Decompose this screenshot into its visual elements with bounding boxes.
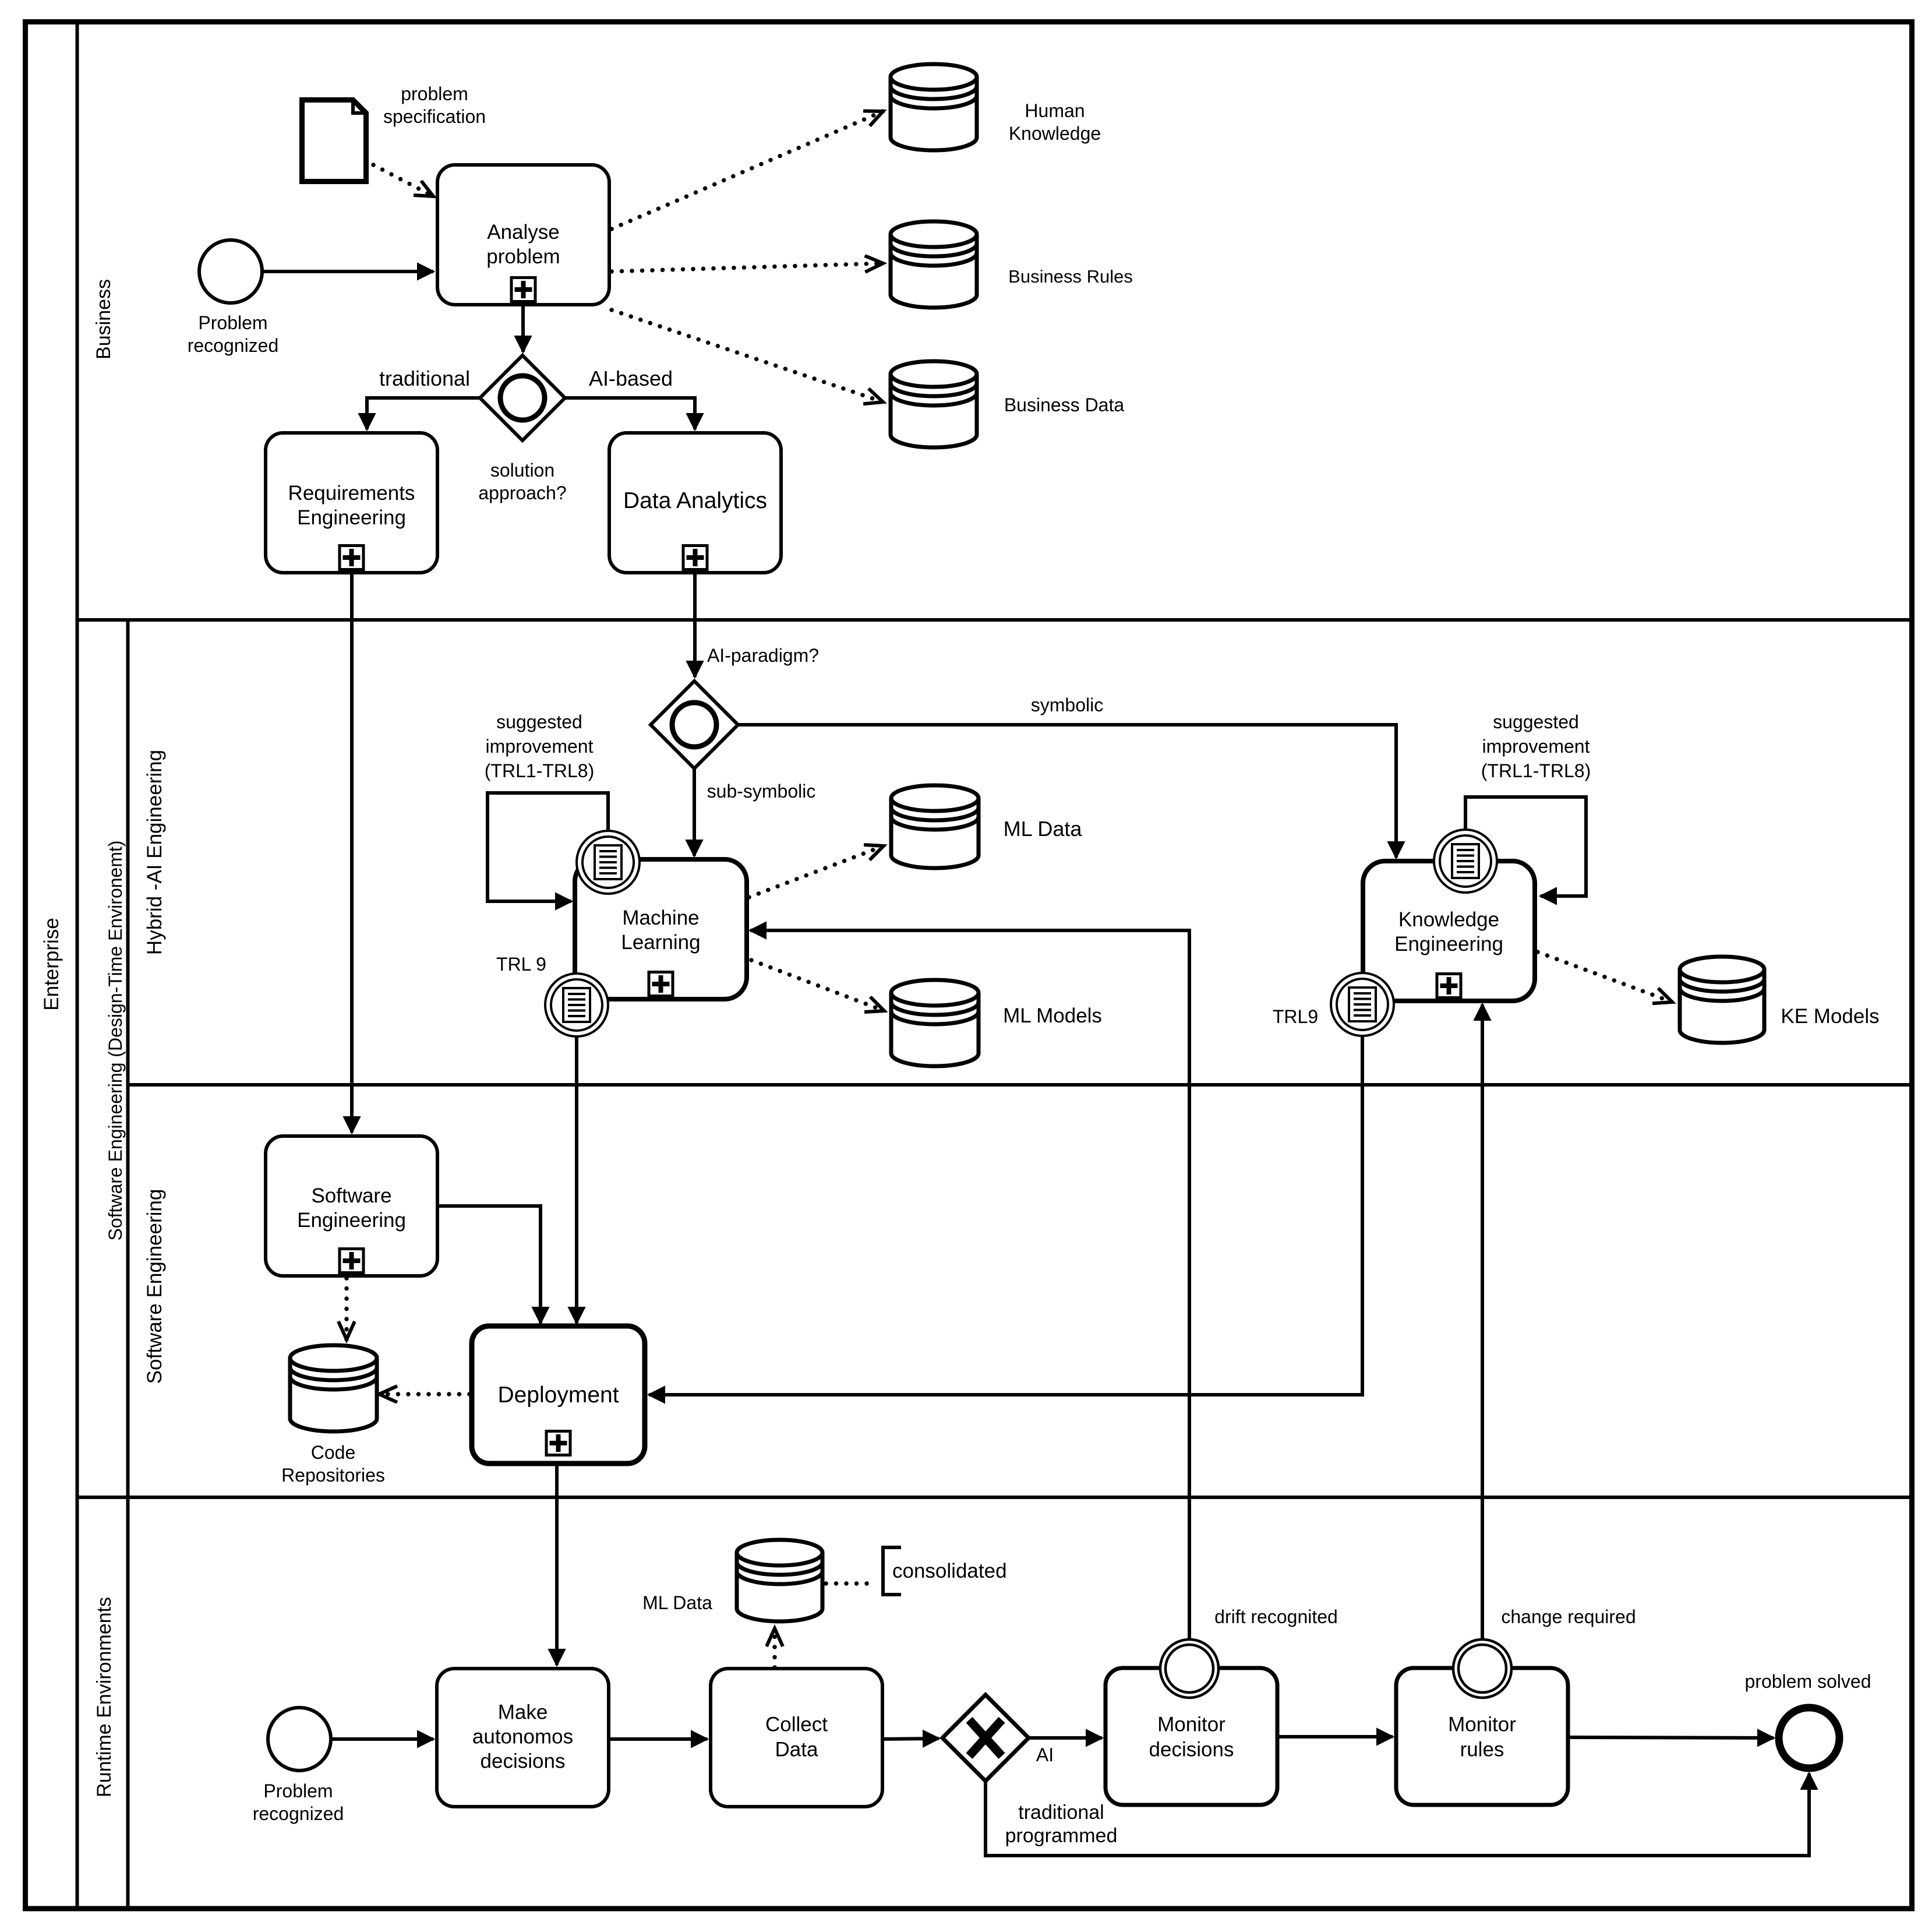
wire gateway X to Monitor decisions (AI) — [1029, 1736, 1102, 1740]
boundary event KE suggested improvement (conditional) — [1434, 830, 1497, 893]
svg-text:Collect: Collect — [765, 1713, 828, 1736]
gateway AI-paradigm? (inclusive) — [651, 681, 738, 768]
label sub-symbolic — [707, 781, 816, 802]
end event problem solved — [1779, 1708, 1839, 1768]
boundary event KE TRL9 (conditional) — [1331, 973, 1394, 1036]
svg-text:Repositories: Repositories — [281, 1465, 385, 1486]
wire gateway solution to Data Analytics (AI-based) — [565, 398, 695, 429]
svg-text:Runtime Environments: Runtime Environments — [93, 1597, 115, 1797]
wire Monitor decisions drift to Machine Learning — [750, 930, 1189, 1639]
svg-text:Human: Human — [1025, 100, 1085, 121]
svg-text:Data: Data — [775, 1738, 818, 1761]
label AI — [1036, 1744, 1054, 1765]
label Business Data — [1004, 394, 1125, 415]
start event Problem recognized (runtime) — [268, 1708, 331, 1771]
label traditional programmed — [1005, 1801, 1118, 1847]
label Human Knowledge — [1009, 100, 1101, 144]
label AI-based — [589, 366, 673, 390]
svg-text:Data Analytics: Data Analytics — [623, 488, 767, 513]
svg-text:consolidated: consolidated — [892, 1560, 1007, 1582]
svg-text:KE Models: KE Models — [1781, 1005, 1879, 1028]
svg-text:suggested: suggested — [1493, 711, 1579, 732]
label solution approach? — [478, 460, 566, 503]
svg-text:Engineering: Engineering — [1394, 933, 1503, 955]
gateway solution approach? (inclusive) — [480, 355, 565, 440]
svg-text:(TRL1-TRL8): (TRL1-TRL8) — [485, 760, 594, 781]
svg-text:ML Data: ML Data — [1004, 817, 1083, 841]
association Collect Data to ML Data runtime — [772, 1628, 776, 1667]
label KE Models — [1781, 1005, 1879, 1028]
svg-text:symbolic: symbolic — [1031, 694, 1103, 715]
svg-text:Machine: Machine — [622, 907, 699, 929]
svg-text:AI-based: AI-based — [589, 366, 673, 390]
label Code Repositories — [281, 1442, 385, 1486]
label drift recognited — [1214, 1606, 1338, 1627]
lane boundary Business bottom — [77, 618, 1912, 622]
svg-text:Enterprise: Enterprise — [40, 918, 63, 1011]
wire Monitor rules to end event — [1567, 1737, 1774, 1738]
task Knowledge Engineering — [1363, 861, 1535, 1001]
svg-text:ML Data: ML Data — [642, 1592, 712, 1613]
svg-text:Business Data: Business Data — [1004, 394, 1125, 415]
nested lane label separator — [126, 620, 130, 1909]
wire gateway solution to Requirements Engineering (traditional) — [367, 398, 480, 429]
svg-text:Code: Code — [311, 1442, 356, 1463]
association Analyse problem to Business Rules — [612, 263, 883, 271]
task Requirements Engineering — [266, 433, 437, 573]
svg-text:Software Engineering (Design-T: Software Engineering (Design-Time Enviro… — [105, 840, 126, 1240]
task Analyse problem — [437, 165, 609, 305]
task Make autonomos decisions — [437, 1669, 609, 1807]
svg-text:drift recognited: drift recognited — [1214, 1606, 1338, 1627]
label TRL 9 (ML) — [496, 954, 546, 975]
task Monitor decisions — [1105, 1668, 1277, 1805]
svg-text:rules: rules — [1460, 1738, 1504, 1761]
svg-text:Analyse: Analyse — [487, 221, 560, 244]
label suggested improvement TRL1-TRL8 (KE) — [1481, 711, 1591, 781]
label change required — [1501, 1606, 1636, 1627]
svg-text:sub-symbolic: sub-symbolic — [707, 781, 816, 802]
boundary event ML suggested improvement (conditional) — [577, 831, 640, 894]
svg-text:Requirements: Requirements — [288, 482, 415, 505]
svg-text:Learning: Learning — [621, 931, 700, 954]
svg-text:problem solved: problem solved — [1745, 1671, 1871, 1692]
svg-text:Deployment: Deployment — [497, 1383, 619, 1408]
label ML Models — [1003, 1004, 1102, 1027]
label suggested improvement TRL1-TRL8 (ML) — [485, 711, 594, 781]
label AI-paradigm? — [707, 645, 819, 666]
svg-text:recognized: recognized — [188, 335, 279, 356]
svg-text:Hybrid -AI Engineering: Hybrid -AI Engineering — [143, 750, 166, 955]
label Problem recognized (business) — [188, 312, 279, 356]
svg-text:AI: AI — [1036, 1744, 1054, 1765]
task Collect Data — [711, 1669, 882, 1807]
task Software Engineering — [266, 1136, 437, 1276]
wire Software Engineering to Deployment — [437, 1206, 541, 1323]
task Machine Learning — [575, 859, 747, 999]
svg-text:(TRL1-TRL8): (TRL1-TRL8) — [1481, 760, 1591, 781]
label problem specification — [383, 83, 486, 127]
data store Business Data — [891, 361, 977, 447]
association Knowledge Engineering to KE Models — [1538, 952, 1672, 1002]
svg-text:Engineering: Engineering — [297, 1209, 406, 1232]
wire ML TRL9 to Deployment — [575, 1035, 578, 1323]
association Machine Learning to ML Models — [751, 960, 884, 1011]
svg-text:ML Models: ML Models — [1003, 1004, 1102, 1027]
svg-text:TRL9: TRL9 — [1273, 1006, 1318, 1027]
wire Make autonomos decisions to Collect Data — [609, 1737, 707, 1741]
label ML Data (runtime) — [642, 1592, 712, 1613]
label consolidated — [892, 1560, 1007, 1582]
task Deployment — [472, 1326, 645, 1463]
task Monitor rules — [1396, 1668, 1568, 1805]
svg-text:decisions: decisions — [481, 1750, 566, 1773]
wire Deployment to Make autonomos decisions — [555, 1463, 559, 1665]
wire Analyse problem to gateway solution — [521, 304, 525, 352]
association ML Data runtime to consolidated annotation — [826, 1581, 877, 1585]
svg-text:programmed: programmed — [1005, 1825, 1118, 1847]
association Analyse problem to Human Knowledge — [612, 111, 883, 229]
wire Requirements Engineering to Software Engineering — [350, 572, 354, 1133]
text annotation bracket consolidated — [883, 1547, 901, 1595]
label Problem recognized (runtime) — [253, 1780, 344, 1824]
label TRL9 (KE) — [1273, 1006, 1318, 1027]
label Business Rules — [1008, 266, 1133, 287]
document problem specification — [302, 100, 366, 182]
svg-text:suggested: suggested — [496, 711, 582, 732]
association Machine Learning to ML Data — [749, 846, 884, 897]
svg-text:Business Rules: Business Rules — [1008, 266, 1133, 287]
svg-text:Monitor: Monitor — [1448, 1713, 1516, 1736]
svg-text:specification: specification — [383, 106, 486, 127]
data store Human Knowledge — [891, 64, 977, 150]
task Data Analytics — [609, 433, 781, 573]
svg-text:decisions: decisions — [1149, 1738, 1234, 1761]
svg-text:Problem: Problem — [263, 1780, 333, 1801]
data store ML Data runtime — [737, 1540, 822, 1621]
wire gateway AI-paradigm to Machine Learning (sub-symbolic) — [693, 768, 696, 856]
wire gateway X traditional programmed to end — [986, 1773, 1809, 1856]
svg-text:Knowledge: Knowledge — [1009, 123, 1101, 144]
wire start2 to Make autonomos decisions — [331, 1737, 433, 1741]
lane boundary DesignTime bottom — [77, 1496, 1912, 1499]
svg-text:improvement: improvement — [486, 736, 594, 757]
wire Monitor decisions to Monitor rules — [1276, 1735, 1393, 1738]
svg-text:improvement: improvement — [1482, 736, 1590, 757]
svg-text:problem: problem — [486, 245, 560, 268]
svg-text:traditional: traditional — [379, 366, 470, 390]
association Software Engineering to Code Repositories — [344, 1278, 348, 1339]
wire Monitor rules change to Knowledge Engineering — [1481, 1004, 1484, 1638]
svg-text:AI-paradigm?: AI-paradigm? — [707, 645, 819, 666]
association Analyse problem to Business Data — [612, 310, 883, 402]
svg-text:recognized: recognized — [253, 1803, 344, 1824]
svg-text:traditional: traditional — [1018, 1801, 1104, 1824]
svg-text:Software Engineering: Software Engineering — [143, 1189, 166, 1384]
data store Business Rules — [891, 221, 977, 308]
label symbolic — [1031, 694, 1103, 715]
svg-text:Engineering: Engineering — [297, 506, 406, 529]
lane boundary Hybrid/Software nested — [128, 1083, 1912, 1087]
wire start1 to Analyse problem — [262, 270, 433, 273]
wire ML suggested improvement loop — [488, 793, 608, 901]
wire Data Analytics to gateway AI-paradigm — [693, 572, 697, 677]
data store ML Models — [891, 980, 979, 1066]
data store KE Models — [1680, 957, 1764, 1043]
svg-text:Monitor: Monitor — [1157, 1713, 1225, 1736]
start event Problem recognized (business) — [199, 240, 262, 303]
boundary event ML TRL 9 (conditional) — [545, 974, 608, 1036]
svg-text:Business: Business — [93, 279, 115, 359]
boundary event change required — [1453, 1639, 1511, 1698]
wire KE TRL9 to Deployment — [649, 1035, 1362, 1395]
svg-text:Problem: Problem — [198, 312, 267, 333]
svg-text:autonomos: autonomos — [472, 1726, 573, 1748]
data store ML Data — [891, 785, 979, 868]
svg-text:Knowledge: Knowledge — [1398, 908, 1499, 931]
label ML Data — [1004, 817, 1083, 841]
svg-text:TRL 9: TRL 9 — [496, 954, 546, 975]
svg-text:approach?: approach? — [478, 482, 566, 503]
svg-text:solution: solution — [490, 460, 554, 481]
svg-text:problem: problem — [401, 83, 468, 104]
wire gateway AI-paradigm to Knowledge Engineering (symbolic) — [738, 725, 1396, 858]
wire Collect Data to gateway X — [882, 1738, 939, 1739]
label problem solved — [1745, 1671, 1871, 1692]
label traditional — [379, 366, 470, 390]
association problem specification to Analyse problem — [373, 165, 433, 196]
pool label separator — [76, 22, 79, 1909]
gateway AI / traditional programmed (exclusive) — [942, 1695, 1029, 1781]
svg-text:change required: change required — [1501, 1606, 1636, 1627]
svg-text:Make: Make — [498, 1701, 548, 1724]
wire KE suggested improvement loop — [1465, 797, 1586, 896]
svg-text:Software: Software — [311, 1184, 391, 1207]
data store Code Repositories — [290, 1345, 377, 1431]
association Deployment to Code Repositories — [379, 1392, 469, 1396]
boundary event drift recognited — [1160, 1639, 1218, 1698]
